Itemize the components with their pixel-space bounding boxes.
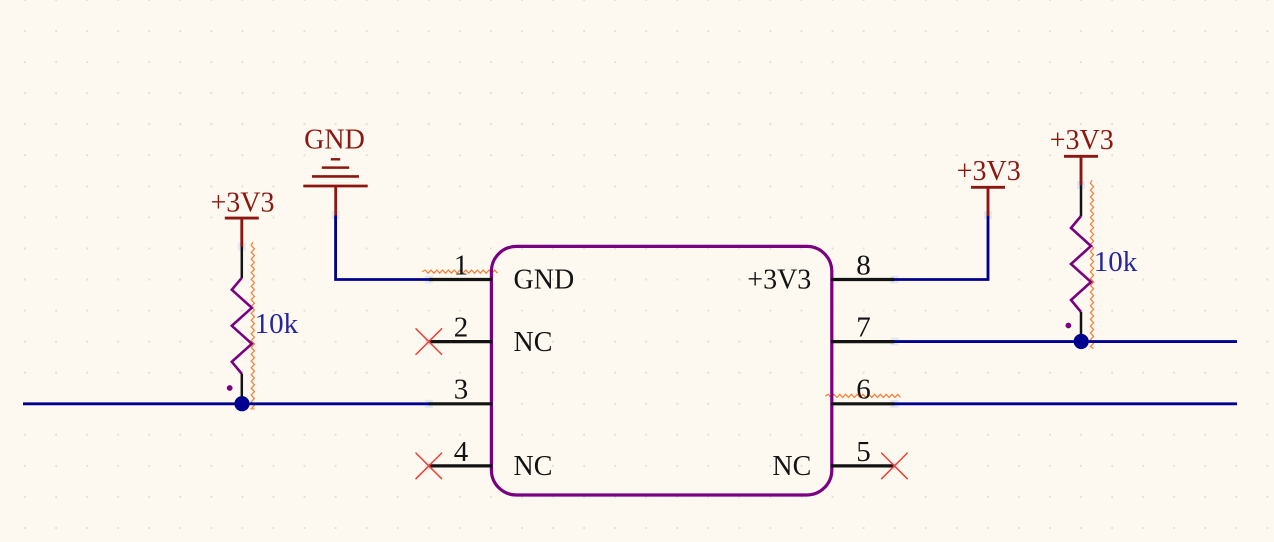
svg-text:2: 2 <box>454 312 469 344</box>
svg-text:4: 4 <box>454 436 469 468</box>
svg-text:+3V3: +3V3 <box>210 188 274 219</box>
symbol origin dot right <box>1066 323 1072 329</box>
resistor right 10k: bottom lead <box>1080 312 1083 342</box>
no-connect X pin 5 <box>882 453 908 479</box>
pin 4 line <box>429 464 493 467</box>
svg-text:8: 8 <box>856 249 871 281</box>
IC body U? <box>491 246 831 495</box>
power symbol +3V3 bar <box>1064 155 1098 158</box>
symbol origin dot left <box>227 385 233 391</box>
power symbol +3V3 bar <box>971 186 1005 189</box>
svg-text:7: 7 <box>856 312 871 344</box>
resistor left 10k: top lead <box>241 247 244 278</box>
pin 3 line <box>429 402 493 405</box>
pin 7 line <box>831 340 895 343</box>
wire/pin endpoint markers <box>425 276 433 284</box>
no-connect X pin 4 <box>416 453 442 479</box>
pin 6 line <box>831 402 895 405</box>
svg-text:NC: NC <box>514 451 553 482</box>
svg-text:1: 1 <box>454 249 469 281</box>
power symbol +3V3 stem <box>1080 156 1083 185</box>
pin 5 line <box>831 464 895 467</box>
no-connect X pin 2 <box>416 329 442 355</box>
wire: +3V3 to pin 8 <box>893 215 988 279</box>
power symbol +3V3 stem <box>987 187 990 216</box>
wire: pin 6 net to right <box>893 402 1237 405</box>
pin 8 line <box>831 278 895 281</box>
ERC warning squiggle on resistor R? left <box>251 242 254 409</box>
pin 1 line <box>429 278 493 281</box>
resistor right 10k: zigzag body <box>1071 216 1091 312</box>
svg-text:5: 5 <box>856 436 871 468</box>
svg-text:10k: 10k <box>1094 246 1138 278</box>
resistor right 10k: top lead <box>1080 185 1083 216</box>
wire: left net to pin 3 <box>23 402 430 405</box>
svg-text:GND: GND <box>304 125 365 156</box>
wire: pin 7 net to right <box>893 340 1237 343</box>
ERC warning squiggle on pin 1 <box>422 270 497 273</box>
wire: GND drop <box>336 215 430 279</box>
power symbol +3V3 stem <box>240 218 243 247</box>
svg-text:3: 3 <box>454 374 469 406</box>
power symbol +3V3 bar <box>225 217 259 220</box>
svg-text:+3V3: +3V3 <box>747 265 811 296</box>
pin 2 line <box>429 340 493 343</box>
svg-text:+3V3: +3V3 <box>1050 125 1114 156</box>
svg-text:NC: NC <box>514 327 553 358</box>
svg-text:GND: GND <box>514 265 575 296</box>
junction dot right (pin7 net / R) <box>1074 334 1089 349</box>
svg-text:10k: 10k <box>255 308 299 340</box>
junction dot left (pin3 net / R) <box>234 396 249 411</box>
resistor left 10k: bottom lead <box>241 374 244 404</box>
resistor left 10k: zigzag body <box>232 278 252 374</box>
svg-text:NC: NC <box>772 451 811 482</box>
ERC warning squiggle on resistor R? right <box>1090 180 1093 349</box>
svg-text:6: 6 <box>856 374 871 406</box>
ERC warning squiggle on pin 6 <box>825 394 900 397</box>
ground symbol GND <box>331 158 340 160</box>
svg-text:+3V3: +3V3 <box>957 156 1021 187</box>
